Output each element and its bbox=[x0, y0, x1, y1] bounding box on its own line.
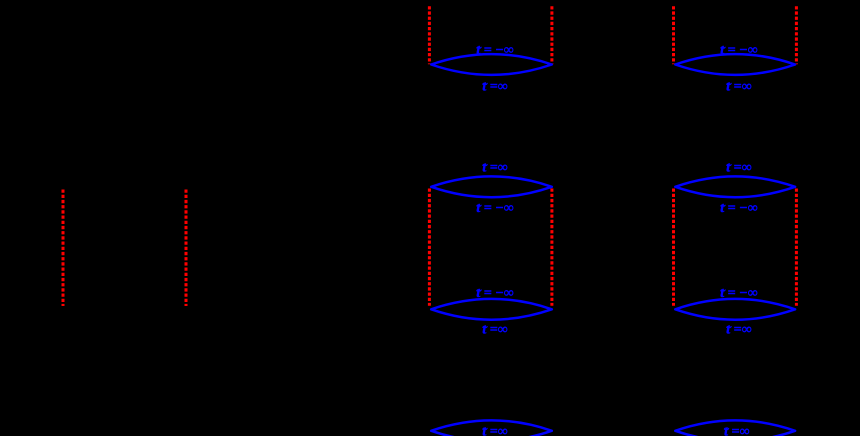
svg-text:t =∞: t =∞ bbox=[726, 323, 751, 338]
svg-text:t =∞: t =∞ bbox=[482, 323, 507, 338]
svg-text:t =∞: t =∞ bbox=[724, 424, 749, 436]
svg-text:t = −∞: t = −∞ bbox=[720, 286, 757, 301]
svg-text:t =∞: t =∞ bbox=[482, 79, 507, 94]
svg-text:t = −∞: t = −∞ bbox=[720, 43, 757, 58]
svg-text:t = −∞: t = −∞ bbox=[476, 286, 513, 301]
svg-text:t =∞: t =∞ bbox=[726, 79, 751, 94]
svg-text:t =∞: t =∞ bbox=[726, 161, 751, 176]
svg-text:t = −∞: t = −∞ bbox=[476, 201, 513, 216]
svg-text:t =∞: t =∞ bbox=[482, 424, 507, 436]
svg-text:t = −∞: t = −∞ bbox=[476, 43, 513, 58]
svg-text:t = −∞: t = −∞ bbox=[720, 201, 757, 216]
svg-text:t =∞: t =∞ bbox=[482, 161, 507, 176]
